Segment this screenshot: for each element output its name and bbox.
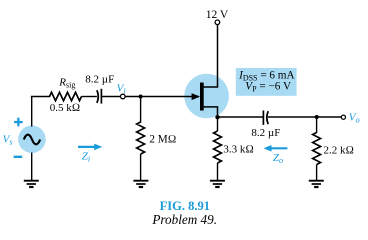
capacitor C1 8.2uF: [97, 89, 102, 104]
svg-text:0.5 kΩ: 0.5 kΩ: [50, 102, 80, 114]
node RL junction: [315, 115, 319, 119]
ground RS: [210, 181, 225, 187]
wire C2 to Vo: [268, 116, 341, 118]
capacitor C2 8.2uF: [263, 111, 268, 125]
svg-text:2 MΩ: 2 MΩ: [149, 133, 176, 145]
resistor RG 2 Mohm: [137, 122, 145, 154]
ground RL: [309, 181, 324, 187]
wire top horizontal to Rsig: [31, 96, 50, 98]
wire RL to ground: [316, 165, 318, 181]
node source junction: [215, 115, 219, 119]
wire VS bottom to ground: [31, 153, 33, 181]
label minus: [14, 156, 23, 158]
wire RL junction down: [316, 117, 318, 133]
resistor RL 2.2 kohm: [313, 133, 321, 165]
svg-text:8.2 µF: 8.2 µF: [251, 127, 280, 139]
label plus: [14, 118, 23, 127]
wire junction down to RG: [140, 97, 142, 123]
wire source node to C2: [218, 116, 263, 118]
resistor RS 3.3 kohm: [214, 131, 222, 163]
parameter highlight box: [236, 68, 297, 96]
transistor Q1 highlight circle: [184, 74, 229, 119]
node Vi terminal: [121, 94, 126, 99]
wire C1 to gate: [102, 96, 199, 98]
node Vo terminal: [341, 115, 345, 119]
wire VS top vertical: [31, 97, 33, 127]
arrow Zi: [78, 144, 102, 151]
ground RG: [133, 181, 148, 187]
svg-text:8.2 µF: 8.2 µF: [85, 74, 114, 86]
ground VS: [24, 181, 39, 187]
wire Rsig to C1: [82, 96, 97, 98]
source VS circle: [18, 126, 46, 154]
svg-text:2.2 kΩ: 2.2 kΩ: [324, 145, 354, 157]
resistor Rsig: [50, 92, 82, 100]
wire RS to ground: [217, 163, 219, 180]
node 12V terminal: [215, 20, 220, 25]
node gate junction: [139, 95, 143, 99]
wire RG to ground: [140, 154, 142, 180]
svg-text:FIG. 8.91: FIG. 8.91: [160, 199, 210, 213]
svg-text:3.3 kΩ: 3.3 kΩ: [223, 144, 253, 156]
transistor Q1 JFET symbol: [192, 25, 218, 117]
label IDSS VP: [238, 69, 295, 93]
arrow Zo: [264, 145, 288, 152]
svg-text:12 V: 12 V: [206, 9, 229, 21]
wire source node to RS: [217, 117, 219, 131]
svg-text:Problem 49.: Problem 49.: [151, 212, 217, 227]
